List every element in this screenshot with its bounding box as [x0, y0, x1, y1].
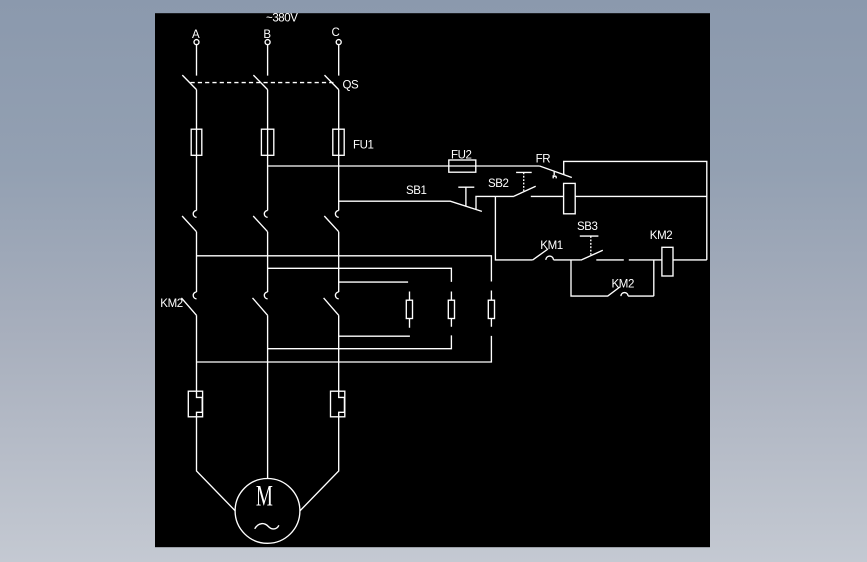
svg-text:KM1: KM1: [540, 240, 562, 252]
svg-text:SB2: SB2: [488, 178, 509, 190]
svg-text:KM2: KM2: [612, 279, 634, 291]
svg-text:C: C: [332, 27, 340, 39]
svg-text:~380V: ~380V: [266, 13, 298, 25]
svg-text:B: B: [263, 29, 271, 41]
svg-text:KM2: KM2: [160, 298, 182, 310]
svg-text:SB1: SB1: [406, 185, 427, 197]
svg-text:FU2: FU2: [451, 150, 472, 162]
svg-text:KM2: KM2: [650, 230, 672, 242]
svg-text:FR: FR: [536, 154, 551, 166]
svg-text:FU1: FU1: [353, 140, 374, 152]
svg-text:A: A: [192, 29, 200, 41]
svg-text:QS: QS: [343, 79, 360, 91]
svg-text:M: M: [256, 479, 273, 512]
svg-text:SB3: SB3: [577, 221, 598, 233]
